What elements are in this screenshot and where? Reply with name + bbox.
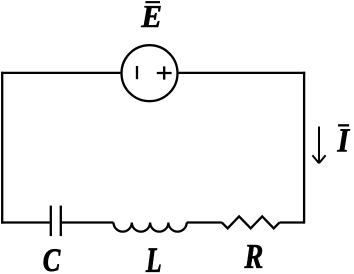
label L (146, 249, 161, 272)
resistor R1 zigzag (222, 216, 280, 228)
wire bottom left segment (1, 221, 50, 223)
label R (244, 245, 262, 268)
capacitor C1 right plate (60, 206, 62, 237)
label C (44, 249, 61, 271)
voltage source plus sign (157, 66, 172, 79)
wire right vertical (303, 72, 305, 224)
label I phasor (337, 129, 350, 151)
voltage source minus terminal bar (136, 66, 138, 79)
label I macron (338, 124, 349, 126)
inductor L1 coils (114, 223, 187, 232)
capacitor C1 left plate (50, 206, 52, 237)
wire inductor to resistor (187, 221, 222, 223)
wire resistor to right (280, 221, 305, 223)
label E macron (145, 1, 160, 3)
wire top right segment (179, 72, 306, 74)
wire top left segment (1, 72, 120, 74)
wire capacitor to inductor (62, 221, 114, 223)
current direction arrow (312, 127, 325, 164)
wire left vertical (1, 72, 3, 224)
label E phasor (141, 6, 161, 27)
voltage source U1 circle (122, 45, 178, 101)
